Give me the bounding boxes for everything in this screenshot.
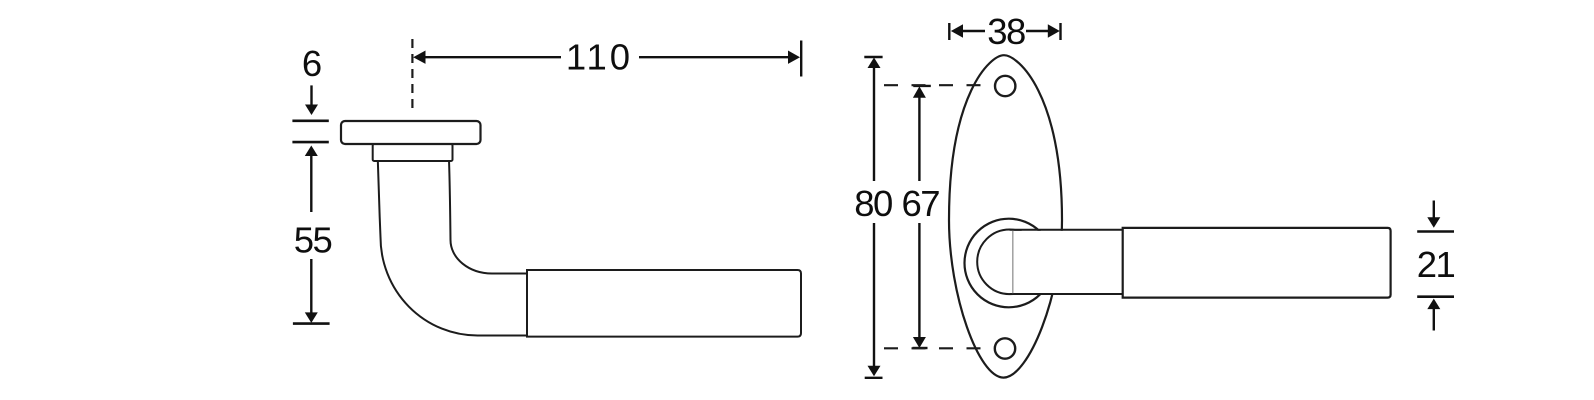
dim 110 left arrow [413,51,425,64]
dim 21 up arrow [1427,299,1440,310]
dim 6 top tick [292,120,328,123]
dashed line to bottom screw [884,347,996,349]
neck collar side view [373,144,453,161]
svg-text:80: 80 [854,183,892,224]
hemisphere tangent line (gray) [1012,231,1014,293]
screw hole top [995,76,1015,96]
grip front view [1123,228,1391,298]
dim 110 right segment arrow and tick [639,56,790,58]
svg-text:67: 67 [901,183,939,224]
svg-text:110: 110 [566,37,633,78]
dim 55 up arrow [305,146,318,157]
oval rose front view [949,55,1062,377]
dim 38 right segment arrow and tick [1026,30,1049,32]
dim 38 left tick and arrow [948,23,950,40]
dim 67 top tick and up arrow [913,85,931,87]
dim 80 top tick and up arrow [864,56,882,58]
svg-text:38: 38 [987,11,1025,52]
lever neck front view [1010,231,1123,293]
dim 55 bottom tick [293,322,330,325]
dim 21 bottom tick [1417,295,1454,298]
centerline (dashed) left view [411,39,413,112]
hub ring front view [965,219,1054,308]
dim 21 top tick [1417,230,1454,233]
svg-text:55: 55 [294,219,332,260]
svg-text:21: 21 [1417,244,1455,285]
screw hole bottom [995,338,1015,358]
dim 80 lower shaft and down arrow [873,223,875,367]
dim 6 down arrow [310,85,312,105]
svg-text:6: 6 [302,43,322,84]
dim 21 down arrow [1433,201,1435,219]
dashed line to top screw [884,84,996,86]
dim 6 bottom tick [292,141,328,144]
rose side view [341,121,481,144]
dim 67 lower shaft and down arrow [918,223,920,338]
handle hemisphere end front view [977,229,1042,294]
grip side view [527,270,801,337]
dim 55 lower shaft and down arrow [310,259,312,313]
lever tube side view [378,160,527,336]
